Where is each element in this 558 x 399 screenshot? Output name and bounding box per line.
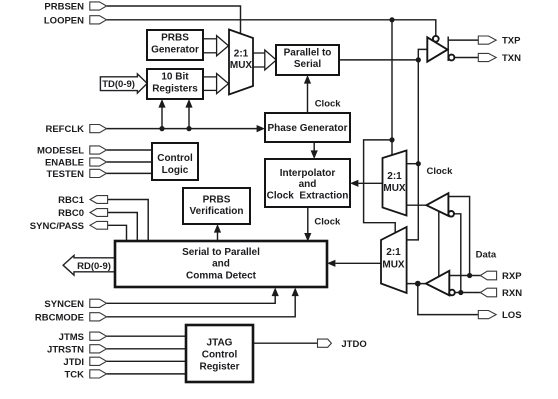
svg-text:Comma Detect: Comma Detect (186, 270, 257, 281)
svg-text:Generator: Generator (151, 45, 199, 56)
svg-text:Phase Generator: Phase Generator (267, 123, 347, 134)
svg-text:REFCLK: REFCLK (45, 124, 84, 135)
svg-text:TXP: TXP (502, 36, 521, 47)
svg-text:MUX: MUX (383, 183, 406, 194)
svg-text:Registers: Registers (152, 84, 198, 95)
svg-text:and: and (299, 179, 317, 190)
svg-text:Clock Extraction: Clock Extraction (267, 191, 349, 202)
svg-text:2:1: 2:1 (387, 171, 402, 182)
svg-text:RXN: RXN (502, 288, 522, 299)
svg-text:TD(0-9): TD(0-9) (102, 79, 135, 90)
svg-text:PRBS: PRBS (203, 194, 231, 205)
svg-text:JTDI: JTDI (63, 357, 84, 368)
svg-text:Clock: Clock (314, 216, 341, 227)
svg-text:RD(0-9): RD(0-9) (77, 261, 111, 272)
svg-text:MUX: MUX (382, 260, 405, 271)
svg-text:Data: Data (476, 250, 497, 261)
svg-text:ENABLE: ENABLE (45, 158, 84, 169)
svg-text:Parallel to: Parallel to (284, 47, 332, 58)
svg-text:JTDO: JTDO (341, 339, 366, 350)
svg-text:PRBS: PRBS (161, 33, 189, 44)
svg-text:LOS: LOS (502, 310, 522, 321)
svg-text:JTMS: JTMS (59, 332, 84, 343)
svg-text:MUX: MUX (230, 60, 253, 71)
svg-text:Control: Control (202, 350, 238, 361)
svg-text:Register: Register (199, 362, 239, 373)
svg-text:RBCMODE: RBCMODE (35, 312, 84, 323)
svg-text:Serial: Serial (294, 59, 321, 70)
svg-text:and: and (212, 259, 230, 270)
svg-text:JTAG: JTAG (207, 338, 233, 349)
svg-text:TXN: TXN (502, 53, 521, 64)
svg-text:RXP: RXP (502, 271, 522, 282)
svg-text:LOOPEN: LOOPEN (44, 15, 84, 26)
svg-text:TESTEN: TESTEN (47, 169, 85, 180)
svg-text:Control: Control (157, 153, 193, 164)
svg-text:Clock: Clock (315, 98, 342, 109)
svg-text:SYNCEN: SYNCEN (44, 299, 84, 310)
svg-text:MODESEL: MODESEL (37, 146, 84, 157)
svg-text:JTRSTN: JTRSTN (47, 344, 84, 355)
svg-text:Verification: Verification (190, 206, 244, 217)
svg-text:Clock: Clock (427, 166, 454, 177)
svg-text:10 Bit: 10 Bit (161, 72, 189, 83)
svg-text:PRBSEN: PRBSEN (44, 2, 84, 13)
svg-text:RBC0: RBC0 (58, 208, 84, 219)
svg-text:2:1: 2:1 (386, 247, 401, 258)
svg-text:2:1: 2:1 (234, 48, 249, 59)
svg-text:TCK: TCK (64, 370, 84, 381)
svg-text:Interpolator: Interpolator (280, 168, 336, 179)
svg-text:Serial to Parallel: Serial to Parallel (182, 247, 260, 258)
svg-text:RBC1: RBC1 (58, 195, 85, 206)
svg-text:SYNC/PASS: SYNC/PASS (30, 221, 84, 232)
svg-text:Logic: Logic (162, 165, 189, 176)
